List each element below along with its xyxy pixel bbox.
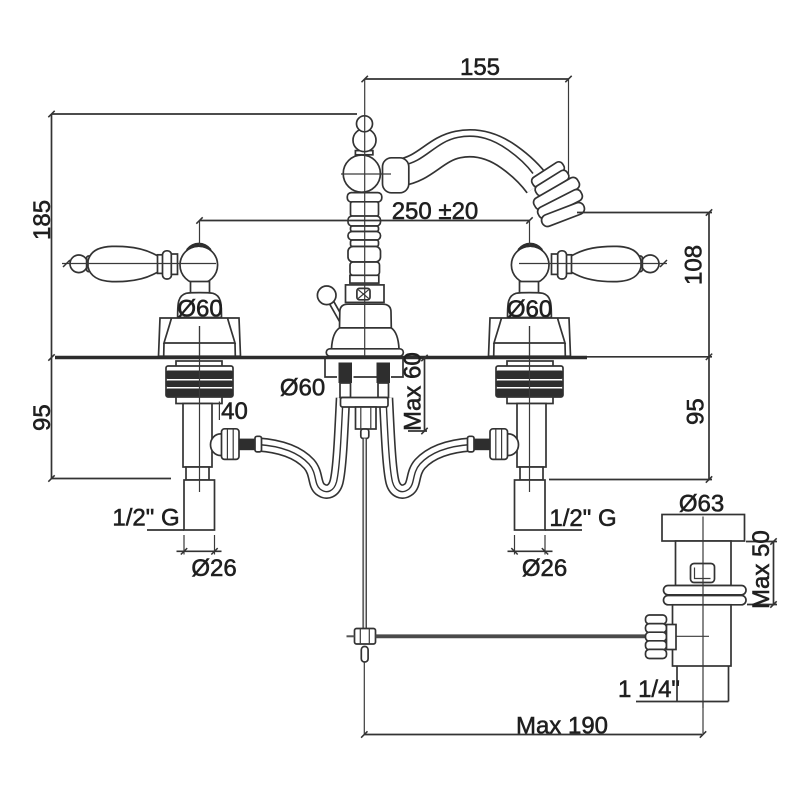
svg-text:Max 50: Max 50 xyxy=(748,530,775,609)
column neck 3 xyxy=(351,240,379,247)
linkage left stub xyxy=(347,635,355,637)
centerline right handle xyxy=(519,263,667,265)
inlet pipe 1/2G xyxy=(184,480,215,530)
drain flange xyxy=(662,515,745,542)
dim 108 + 95 right xyxy=(577,212,712,214)
centerline faucet vertical xyxy=(364,79,366,356)
pop-up rod cap xyxy=(361,429,369,439)
shank washer bottom xyxy=(176,397,222,404)
pop-up housing xyxy=(356,407,377,429)
handle lever body xyxy=(88,246,158,281)
drain ring 1 xyxy=(664,586,747,595)
RIGHT HANDLE (mirror of left) xyxy=(489,243,660,357)
svg-text:185: 185 xyxy=(29,200,56,240)
dim 185 top horizontal line xyxy=(52,113,358,115)
LEFT HANDLE GROUP xyxy=(70,243,241,357)
drain centerline xyxy=(702,517,704,709)
shank washer top xyxy=(176,361,222,367)
svg-text:250 ±20: 250 ±20 xyxy=(392,198,479,225)
centerline left handle xyxy=(62,263,216,265)
hose to center (3-line) xyxy=(258,398,343,492)
column ring 2 xyxy=(348,216,381,226)
valve outlet dome boss xyxy=(211,434,231,456)
svg-text:40: 40 xyxy=(221,398,248,425)
svg-text:1/2" G: 1/2" G xyxy=(549,505,616,532)
underlay extension line of dim 155 (right, behind spout) xyxy=(568,79,570,200)
central base ring xyxy=(326,349,403,356)
svg-text:1 1/4": 1 1/4" xyxy=(618,676,680,703)
column neck 2 xyxy=(351,226,379,232)
spout inner highlight line xyxy=(402,136,533,173)
svg-text:Ø26: Ø26 xyxy=(191,555,236,582)
aerator band E tip xyxy=(540,201,586,228)
column ring 1 xyxy=(347,193,382,202)
dim Max 60 xyxy=(424,358,426,431)
column ring 3 xyxy=(348,232,381,241)
middle ball xyxy=(353,129,376,152)
aerator band B xyxy=(533,169,570,198)
dim 250 ±20 xyxy=(200,220,530,222)
centerline right handle base vertical xyxy=(529,326,531,356)
svg-text:Max 190: Max 190 xyxy=(516,713,608,740)
handle collar rings xyxy=(158,255,164,274)
pop-up vertical rod xyxy=(362,439,367,631)
central bell dome xyxy=(340,304,392,328)
tailpipe bottom + 1 1/4 leader xyxy=(636,701,729,703)
valve body lower stub xyxy=(186,467,209,480)
knurled knob xyxy=(646,615,667,624)
knob connector xyxy=(667,625,677,650)
dim Ø26 extension+line+ticks xyxy=(183,535,185,555)
svg-text:1/2" G: 1/2" G xyxy=(112,505,179,532)
aerator band A xyxy=(530,160,566,189)
svg-text:Ø26: Ø26 xyxy=(522,555,567,582)
nut plate xyxy=(341,398,389,408)
svg-text:95: 95 xyxy=(29,404,56,431)
aerator band D xyxy=(536,188,584,220)
svg-text:Ø60: Ø60 xyxy=(280,375,325,402)
svg-text:Ø63: Ø63 xyxy=(679,491,724,518)
drain ring 2 xyxy=(664,596,747,605)
column neck 1 xyxy=(351,202,379,216)
valve body xyxy=(183,404,212,468)
central bell flare xyxy=(332,328,400,349)
centerline left handle base vertical xyxy=(199,326,201,356)
X screw box xyxy=(357,288,370,299)
svg-text:108: 108 xyxy=(681,245,708,285)
small top ball xyxy=(357,116,373,132)
DECK LINE xyxy=(55,356,587,359)
locknut ring stack xyxy=(166,366,233,397)
svg-text:155: 155 xyxy=(460,54,500,81)
drain neck xyxy=(676,541,732,586)
drain body xyxy=(673,605,732,666)
valve outlet nut xyxy=(222,429,240,460)
spout tube (3-line curve) xyxy=(400,143,538,185)
svg-text:Ø60: Ø60 xyxy=(177,296,222,323)
handle end ball xyxy=(70,255,88,273)
dim 155 xyxy=(365,78,569,80)
threaded stud right xyxy=(377,363,391,384)
column flare neck xyxy=(350,262,380,275)
mounting bracket xyxy=(325,359,403,377)
linkage block xyxy=(355,629,376,645)
column ring 4 xyxy=(348,247,381,263)
handle end collar xyxy=(87,256,93,272)
threaded stud left xyxy=(339,363,353,384)
overflow square hole xyxy=(691,564,715,583)
horizontal rod to drain xyxy=(376,634,647,638)
handle ball joint xyxy=(180,246,218,284)
spout junction box xyxy=(383,158,409,193)
dim 185 vertical + 95 left xyxy=(51,114,53,479)
outlet dark nipple xyxy=(239,439,255,451)
valve centerline xyxy=(199,326,201,492)
handle base skirt outer xyxy=(159,318,241,356)
handle base skirt inner bell xyxy=(164,318,235,343)
handle neck xyxy=(191,282,210,294)
LEFT VALVE BELOW DECK GROUP xyxy=(147,326,343,555)
leader line for 1/2 G xyxy=(147,529,184,531)
dim Max 190 xyxy=(363,662,365,735)
handle ball dark cap xyxy=(185,243,213,254)
svg-text:Ø60: Ø60 xyxy=(507,296,552,323)
RIGHT VALVE (mirror) xyxy=(386,326,582,555)
linkage pin below xyxy=(361,647,368,663)
column top rect xyxy=(350,275,379,283)
tailpipe xyxy=(676,666,678,702)
column big rect xyxy=(346,285,385,303)
centerline big ball horizontal xyxy=(341,173,391,175)
pop-up lever knob xyxy=(317,286,336,305)
dim Max 50 xyxy=(773,542,775,605)
collar between balls xyxy=(355,151,373,155)
dim 40 extension line xyxy=(218,402,220,421)
rod line inside body xyxy=(673,635,710,637)
big ball xyxy=(343,155,380,192)
pop-up lever rod xyxy=(330,302,344,322)
aerator band C xyxy=(532,176,582,212)
outlet collar xyxy=(255,436,262,452)
svg-text:95: 95 xyxy=(683,398,710,425)
handle dome xyxy=(178,293,222,318)
svg-text:Max 60: Max 60 xyxy=(400,352,427,431)
